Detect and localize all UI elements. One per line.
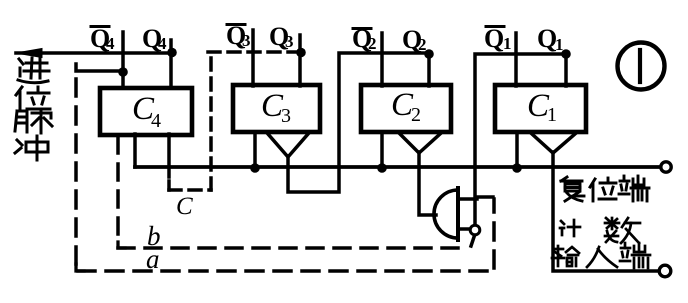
carry pulse output arrow	[16, 49, 172, 58]
text 位	[590, 178, 616, 201]
dashed net a	[76, 79, 494, 271]
text 入	[587, 247, 617, 267]
label Q̄4	[90, 24, 115, 53]
node Q2 output	[424, 49, 434, 59]
AND gate bottom stub	[458, 227, 470, 231]
reset terminal	[661, 162, 671, 172]
text 位	[16, 87, 50, 110]
label Q̄2	[352, 24, 377, 53]
reset bus	[135, 165, 660, 169]
label Q̄3	[226, 21, 251, 50]
node C3 reset on bus	[250, 163, 260, 173]
wire Q̄1 vertical	[514, 33, 518, 86]
wire Q4 vertical	[169, 40, 173, 88]
count input terminal	[659, 265, 671, 277]
text 进 (carry)	[18, 57, 49, 83]
wire Q̄2 vertical	[380, 33, 384, 86]
wire C4 bottom-left to reset bus	[133, 134, 137, 167]
label Q3	[269, 22, 294, 51]
text 脉	[15, 110, 52, 133]
node Q1 output	[561, 49, 571, 59]
text 端	[620, 243, 650, 268]
svg-text:3: 3	[281, 105, 291, 127]
node Q4 output	[167, 48, 177, 58]
text 冲	[15, 136, 48, 160]
wire C2 clock to AND gate	[419, 152, 436, 215]
inversion bubble	[470, 225, 480, 235]
node Q3 output	[296, 48, 306, 58]
svg-text:Q: Q	[484, 24, 504, 53]
text 数	[605, 218, 640, 243]
text 复 (reset)	[561, 177, 584, 201]
wire Q2 vertical	[427, 54, 431, 86]
wire C3 clock to Q2	[288, 53, 429, 192]
svg-text:4: 4	[106, 34, 115, 53]
flip-flop C4	[100, 88, 192, 135]
wire Q1 output to AND bubble	[475, 54, 566, 226]
text 计 (count)	[560, 220, 580, 236]
svg-text:4: 4	[151, 110, 161, 132]
wire a-net corner	[76, 264, 84, 271]
wire C3 reset input to bus	[253, 132, 257, 167]
flip-flop C1	[495, 85, 586, 132]
wire Q1 vertical	[564, 54, 568, 86]
wire C4 second output stub	[167, 134, 171, 177]
text 输	[552, 246, 579, 266]
AND gate top input stub	[458, 197, 477, 201]
svg-text:2: 2	[411, 104, 421, 126]
dashed net b	[118, 137, 474, 248]
label Q1	[537, 24, 564, 54]
wire Q3 vertical	[298, 35, 302, 86]
svg-text:1: 1	[503, 34, 512, 53]
label Q̄1	[484, 24, 512, 53]
dashed net c	[169, 52, 296, 190]
clock wedge C1	[532, 134, 575, 153]
wire C1 reset input to bus	[515, 132, 519, 167]
node Q̄4 input	[118, 67, 128, 77]
svg-text:a: a	[146, 244, 160, 274]
wire C2 reset input to bus	[380, 132, 384, 167]
clock wedge C2	[400, 134, 440, 153]
svg-text:3: 3	[242, 31, 251, 50]
figure number 1 badge	[618, 43, 665, 90]
svg-text:4: 4	[158, 34, 167, 53]
wire a-net solid elbow to Q̄4 input	[76, 64, 123, 71]
svg-text:2: 2	[368, 34, 377, 53]
text 端	[619, 176, 649, 201]
wire C1 clock to count input terminal	[553, 152, 658, 271]
svg-text:3: 3	[285, 32, 294, 51]
node C2 reset on bus	[377, 163, 387, 173]
clock wedge C3	[268, 134, 308, 157]
label Q4	[142, 24, 167, 53]
wire b-net corner	[118, 242, 125, 248]
wire Q̄3 vertical	[251, 30, 255, 86]
wire Q̄4 vertical	[121, 32, 125, 88]
AND gate U1	[434, 188, 458, 240]
svg-text:1: 1	[547, 104, 557, 126]
flip-flop C2	[361, 85, 451, 132]
svg-text:C: C	[176, 193, 193, 220]
flip-flop C3	[233, 85, 320, 132]
label Q2	[402, 25, 427, 54]
node C1 reset on bus	[512, 163, 522, 173]
svg-text:2: 2	[418, 35, 427, 54]
